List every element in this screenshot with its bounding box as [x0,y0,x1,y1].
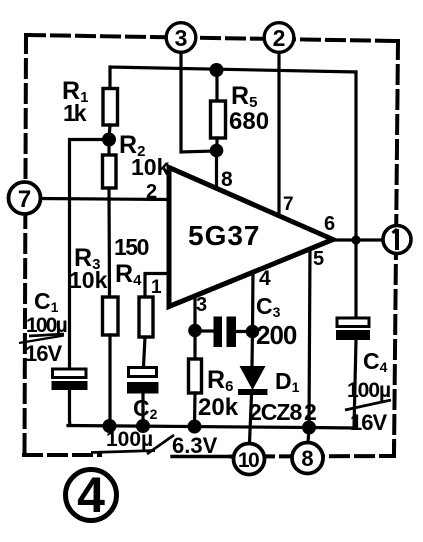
resistor R4 [139,297,153,367]
svg-text:150: 150 [114,234,149,260]
svg-text:8: 8 [221,168,233,191]
svg-text:7: 7 [18,186,31,213]
wire: op-amp pin 3 column [193,296,196,359]
svg-text:7: 7 [283,194,294,215]
svg-text:3: 3 [175,25,188,51]
resistor R3 [103,297,119,426]
label R1 1k [62,77,88,126]
junction: top rail / R5 top [210,63,224,77]
svg-text:4: 4 [77,467,105,523]
wire: jog from R1/R2 node to C1 column [70,140,110,370]
terminal 7 [9,182,41,214]
resistor R2 [103,140,117,298]
label D1 2CZ82 [249,368,317,425]
svg-text:680: 680 [229,108,269,135]
svg-text:5: 5 [313,248,324,270]
svg-text:200: 200 [256,320,297,350]
wire: op-amp pin 4 down to D1 [252,271,253,366]
label R2 10k [119,131,170,180]
label C1 100u 16V [19,288,67,366]
junction: rail / C2 [136,419,150,433]
svg-text:16V: 16V [25,341,62,366]
svg-text:2: 2 [304,399,317,425]
svg-text:6: 6 [324,213,335,235]
capacitor C3 [195,317,252,348]
wire: terminal 3 column down to R5 bottom node [181,52,216,152]
wire: op-amp pin 5 column down to ground / terminal 8 [308,248,310,443]
label C2 100u 6.3V [91,395,218,458]
svg-text:3: 3 [196,294,207,316]
junction: rail / R3 [103,419,117,433]
svg-text:10: 10 [238,449,259,472]
junction: rail / R6 [188,420,202,434]
svg-text:2: 2 [273,25,286,51]
svg-text:20k: 20k [198,394,239,421]
wire: ground rail along bottom [68,340,356,428]
svg-text:100µ: 100µ [106,428,153,451]
figure number 4 [66,467,117,523]
capacitor C2 (electrolytic) [127,368,159,427]
junction: pin4 / C3 right / D1 [246,325,260,339]
capacitor C1 (electrolytic) [52,369,88,426]
junction: pin3 / C3 left / R6 [188,324,202,338]
junction: rail / pin5 column / terminal 8 [302,421,316,435]
terminal 1 [383,226,411,254]
resistor R1 [103,89,118,140]
diode D1 [238,366,268,443]
resistor R6 [189,359,202,426]
svg-text:5G37: 5G37 [188,220,261,251]
wire: op-amp pin 1 down to R4 [145,274,168,298]
resistor R5 [211,70,226,150]
wire: output from op-amp pin 6 to terminal 1 [333,238,383,241]
wire: terminal 2 column down to op-amp pin 7 [277,53,280,216]
svg-text:1k: 1k [63,100,87,126]
svg-text:2CZ8: 2CZ8 [249,399,302,425]
svg-text:10k: 10k [131,154,170,180]
svg-text:1: 1 [151,277,162,298]
terminal 2 [264,23,294,53]
svg-text:4: 4 [259,267,271,290]
terminal 10 [234,444,265,475]
svg-text:16V: 16V [350,410,387,435]
junction: R5 bottom / pin 8 node [210,144,224,158]
svg-text:10k: 10k [69,267,108,293]
wire: top supply rail from R1 top to C4 column [110,67,356,88]
svg-text:6.3V: 6.3V [172,433,218,458]
wire: op-amp pin 8 [215,151,218,190]
label R6 20k [198,366,239,421]
wire: C4 column from top rail through output to C4 [354,72,357,318]
svg-text:8: 8 [301,446,313,471]
label C4 100u 16V [345,348,391,435]
capacitor C4 (electrolytic) [336,318,370,340]
label R3 10k [69,244,108,293]
wire: input from terminal 7 to op-amp pin 2 [40,199,168,200]
op-amp U1 (5G37) [169,168,333,307]
label C3 200 [256,293,297,350]
terminal 8 [292,443,323,474]
label R5 680 [229,82,269,135]
junction: output / C4 column [351,235,360,244]
svg-text:100µ: 100µ [347,379,390,402]
label R4 150 [114,234,149,289]
terminal 3 [166,23,196,53]
svg-text:2: 2 [146,181,157,203]
module outline dashed border [24,35,398,457]
junction: R1/R2 node [102,133,116,147]
